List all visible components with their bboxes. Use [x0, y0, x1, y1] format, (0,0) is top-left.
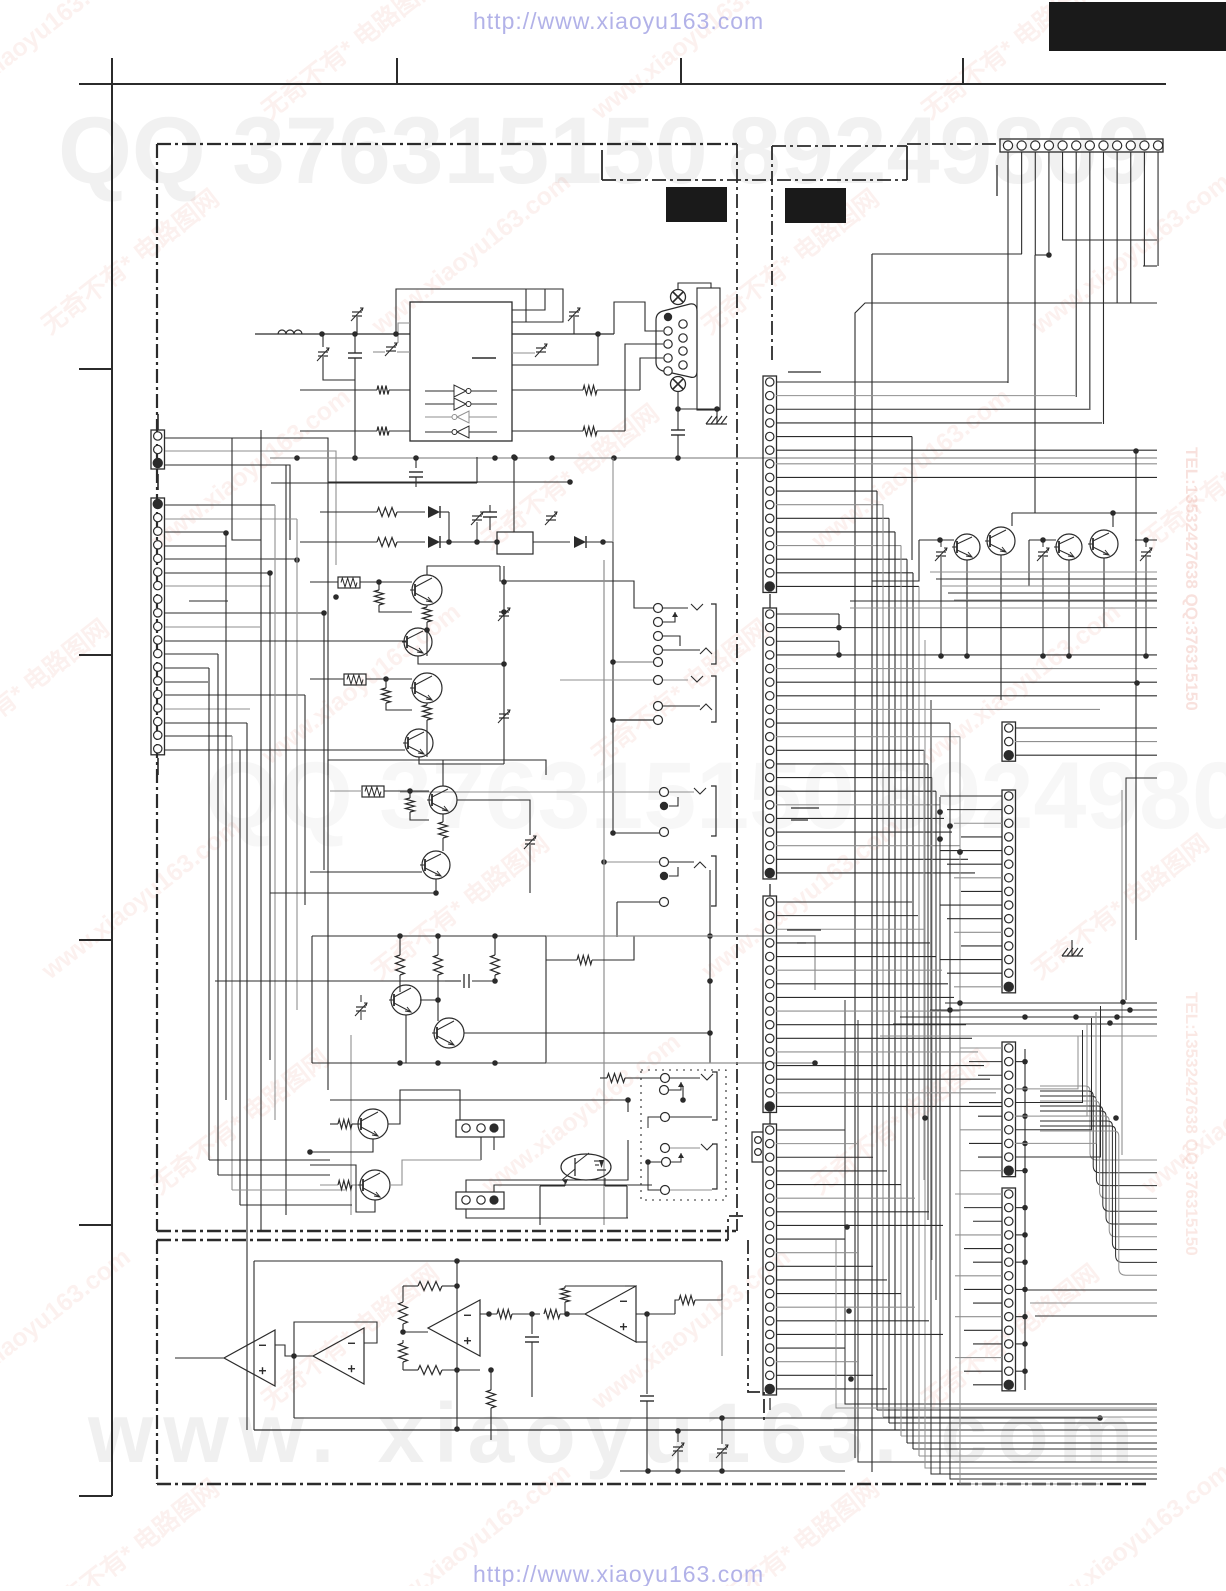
buffer gate B inside U1 (reversed)	[425, 416, 452, 418]
wire diode row 1	[320, 511, 377, 513]
wire CN2 tail	[157, 758, 159, 775]
wire CN-M2 fan left	[940, 795, 1002, 797]
dash-dot bottom box top	[157, 1239, 730, 1242]
wire CN-R S1 vertical bundle	[876, 491, 878, 1410]
dash-dot right inner top edge	[602, 179, 907, 181]
dash-dot right box vertical at 772	[771, 146, 773, 363]
wire R25 join dot	[488, 1367, 494, 1373]
dash-dot left box left edge	[156, 144, 158, 1231]
connector CN5 bracket pins	[755, 1137, 762, 1144]
wire Q5 emitter chain	[442, 814, 444, 822]
resistor R17	[320, 1184, 338, 1186]
DB9 mounting bracket	[697, 288, 720, 410]
transistor Q14	[1090, 530, 1118, 558]
resistor R23	[497, 1310, 512, 1319]
connector CN-M2 15pin	[1002, 790, 1016, 993]
connector CN-R S3-S4 link	[769, 1112, 771, 1124]
resistor R14 vertical	[437, 936, 439, 955]
buffer gate A inside U1	[425, 390, 454, 392]
resistor R22 bottom	[403, 1369, 418, 1371]
wire CN1 pin3	[165, 465, 290, 540]
jack J4 contacts	[661, 1144, 670, 1153]
jack J3 frame bar	[712, 1072, 717, 1120]
transistor Q4	[405, 729, 433, 757]
connector CN-R S1-S2 link	[769, 594, 771, 608]
junction dots near CN2	[223, 530, 229, 536]
resistor R13 vertical	[399, 936, 401, 955]
jack J3 contacts	[661, 1074, 670, 1083]
wire mid fan lower exits	[1025, 1289, 1157, 1291]
wire feed x628 x683 verticals	[627, 1100, 629, 1112]
wire Q9 collector to CN3	[388, 1090, 460, 1124]
wire K1 output	[533, 541, 570, 543]
transistor Q8	[434, 1018, 464, 1048]
dash-dot bottom box corner notch	[728, 1216, 744, 1240]
capacitor C6	[646, 1314, 648, 1394]
op-amp U4A	[428, 1300, 480, 1356]
junction dots CN-R S4	[844, 1224, 850, 1230]
wire cluster frame top y936	[312, 935, 546, 937]
wire bus verticals left column	[208, 668, 210, 1160]
resistor R16	[330, 1123, 338, 1125]
wire R26 top loop	[565, 1285, 625, 1287]
op-amp U4B	[585, 1286, 636, 1342]
wire inner loop left of U1	[398, 323, 410, 343]
wire R5 to Q1	[310, 581, 338, 583]
jack J4 levers	[670, 1147, 700, 1149]
resistor R27	[679, 1296, 695, 1305]
wire Q5 collector top	[442, 760, 444, 786]
wire y778 from x1126	[1126, 778, 1157, 1000]
black box label 1	[666, 187, 727, 222]
wire bus y458	[270, 457, 1157, 459]
wire rail y334 right of U1	[512, 333, 614, 335]
wire TG bases	[919, 539, 954, 541]
wire CN-R S2 pin1/3 corners	[838, 614, 840, 628]
trimmer capacitor CT16	[472, 515, 482, 517]
jack J1 contacts	[654, 604, 663, 613]
wire jack J6 feeds	[604, 861, 659, 863]
connector CN-R S4 side bracket	[752, 1132, 763, 1162]
transistor Q13	[1056, 534, 1082, 560]
wire left loop op-amp chain	[253, 1261, 255, 1430]
wire jack J2 sleeve	[613, 719, 653, 721]
trimmer capacitor CT5	[569, 311, 579, 313]
connector CN-T top header	[1000, 139, 1163, 152]
wire CN-T branch y266 right	[1143, 265, 1157, 267]
transistor Q1	[412, 575, 442, 605]
node dots on rail y334	[319, 331, 325, 337]
wire right loop of U1	[512, 289, 563, 322]
svg-text:http://www.xiaoyu163.com: http://www.xiaoyu163.com	[473, 8, 764, 34]
wire bottom y1471	[620, 1470, 845, 1472]
wire U4B output	[636, 1313, 675, 1315]
wire TG base Q13	[1029, 539, 1056, 541]
dash-dot tick vertical 602	[601, 150, 603, 180]
jack J5 contacts	[660, 788, 669, 797]
dash-dot bottom box bottom edge	[157, 1483, 1150, 1486]
wire inner loop right of U1	[512, 289, 545, 310]
wire CN1 pin2	[165, 451, 336, 565]
trimmer capacitor CT13	[1038, 551, 1048, 553]
wire CN-T branch y254 left	[872, 253, 1022, 255]
connector CN3 3pin horizontal	[456, 1120, 504, 1137]
wire CN2 pin fan	[165, 504, 275, 506]
wire y936 extension right	[546, 936, 815, 990]
wire CN-T pins 9,10 into y303 bus	[1115, 302, 1117, 304]
wire Q2 base from CN2 pin11	[165, 640, 404, 642]
trimmer capacitor CT3	[386, 346, 396, 348]
resistor R3 row y390 right	[512, 389, 583, 391]
trimmer capacitor CT9	[356, 1006, 366, 1008]
trimmer capacitor CT11	[717, 1448, 727, 1450]
DB9 screw bottom	[671, 377, 686, 392]
wire CN4 feed	[466, 1209, 628, 1218]
dash-dot left box bottom	[157, 1230, 736, 1233]
frame left vertical rule	[111, 58, 113, 1496]
vertical feed x504	[503, 566, 505, 764]
jack J4 frame bar	[712, 1144, 717, 1189]
connector CN-R S2-S3 link	[769, 884, 771, 896]
wire jack J1 sleeve	[613, 661, 653, 663]
wire bundle x925 x931	[925, 640, 1157, 1468]
wire vertical x855 long	[854, 318, 856, 1458]
wire diode row 2	[300, 541, 377, 543]
trimmer capacitor CT8	[525, 839, 535, 841]
wire vertical x613	[612, 458, 614, 542]
wire right staircase band y570-600	[930, 571, 1157, 573]
jack J4 left rail	[648, 1162, 661, 1190]
trimmer capacitor CT6	[499, 611, 509, 613]
wire CN-M vertical x1025	[1024, 1049, 1026, 1390]
wire Q1 collector top	[427, 566, 500, 575]
resistor R11 box	[362, 786, 384, 797]
wire CN-R S3 fan	[776, 901, 912, 903]
resistor R28	[546, 959, 577, 961]
trimmer capacitor CT2	[318, 351, 328, 353]
black box label 2	[785, 188, 846, 223]
wire audio bus y1418	[294, 1417, 1100, 1419]
wire U4A feedback vertical	[456, 1261, 458, 1429]
frame tick marks left	[79, 368, 112, 370]
frame tick marks top	[396, 58, 398, 84]
wire CN-T pin12 branch	[1156, 239, 1157, 241]
wire CN3 links	[459, 1112, 461, 1120]
op-amp U3B	[313, 1328, 364, 1384]
svg-text:TEL:13532427638 QQ:376315150: TEL:13532427638 QQ:376315150	[1182, 992, 1201, 1256]
resistor R4 row y431 right	[512, 430, 583, 432]
connector CN-R segment S1	[763, 376, 777, 592]
wire J4 sleeve	[670, 1189, 712, 1191]
wire CN1 pin1	[165, 438, 328, 482]
trimmer capacitor CT4	[536, 347, 546, 349]
connector CN-R segment S4	[763, 1124, 777, 1395]
DB9 pins right column	[679, 320, 687, 328]
wire top right x872 riser	[871, 254, 873, 310]
capacitor C4 horizontal	[445, 980, 461, 982]
wire CN-R S4 fan	[776, 1129, 845, 1131]
connector CN-M4 15pin	[1002, 1188, 1016, 1391]
wire vertical x604 gray	[603, 560, 605, 1225]
wire Q4 emitter	[419, 757, 504, 764]
wire Q6 emitter down	[435, 879, 437, 893]
resistor R12 vertical	[409, 791, 411, 798]
wire CN-R S2 pin9/10 vertical drops	[950, 723, 1157, 1479]
wire CN-R S3 stub labels	[787, 929, 821, 931]
wire U3B output to U3A inputs	[275, 1345, 294, 1356]
wire y490 box	[232, 438, 261, 540]
wire DB9 top to bracket	[678, 283, 711, 289]
transistor Q9	[358, 1109, 388, 1139]
resistor R5 box	[338, 577, 360, 588]
wire staircase to lower section	[209, 1159, 330, 1161]
resistor R24	[544, 1310, 560, 1319]
connector CN1 3pin	[151, 430, 165, 469]
wire CN-R S1 fan	[776, 381, 1008, 383]
capacitor C2 below DB9	[677, 409, 679, 430]
capacitor C7	[489, 505, 491, 512]
wire Q7 emitter	[405, 1015, 407, 1063]
wire CN-M3 riser bundle	[1015, 1036, 1078, 1089]
wire right column x722	[721, 1261, 723, 1300]
wire CN4 top feeds	[466, 1140, 628, 1192]
wire DB9 pin wires	[640, 358, 663, 390]
jack J1 levers	[663, 607, 688, 609]
connector CN-DB9 shell	[656, 304, 697, 378]
trimmer capacitor CT14	[1141, 551, 1151, 553]
jack J6 levers	[669, 861, 694, 863]
wire vertical x1035 to transistor feed	[1034, 255, 1036, 513]
wire jack feed y680	[560, 679, 653, 681]
wire top loop over U1	[396, 289, 526, 334]
DB9 screw top	[671, 290, 686, 305]
diode D1	[428, 506, 440, 518]
jack J2 contacts	[654, 676, 663, 685]
wire TG feed y513	[1012, 512, 1157, 514]
junction dot y451	[1133, 448, 1139, 454]
wire R8 to Q3	[310, 678, 344, 680]
DB9 pin 1 filled	[664, 313, 672, 321]
wire DB9 bottom ground	[677, 392, 679, 409]
wire CN-M3 stubs	[960, 1047, 1002, 1049]
resistor R7 below Q1	[426, 605, 428, 607]
wire stub below connector left	[996, 165, 998, 196]
wire CN-T pin3-4 tie y255	[1035, 254, 1049, 256]
wire cluster frame bottom y1063	[312, 1062, 546, 1064]
resistor R18	[600, 1077, 607, 1079]
resistor R8 box	[344, 674, 366, 685]
trimmer capacitor CT17	[546, 515, 556, 517]
wire right buses y1003-1036	[945, 1002, 1157, 1004]
trimmer capacitor CT1	[352, 311, 362, 313]
wire U4B plus input down	[636, 1341, 647, 1343]
black box top-right	[1049, 2, 1226, 51]
wire CN-R S2 stub labels	[791, 807, 819, 809]
wire U4A output node	[480, 1313, 497, 1315]
wire Q6 base	[310, 871, 422, 873]
frame top horizontal rule	[79, 83, 1166, 85]
jack J6 frame bar	[711, 856, 716, 906]
wire audio out bus y1430	[254, 1429, 905, 1431]
junction dot CN-T pin4	[1046, 252, 1052, 258]
capacitor C3 below bus	[415, 458, 417, 468]
wire D1 corner down	[448, 512, 450, 542]
wire Q1 collector to jack J1	[500, 566, 653, 608]
transistor Q7	[391, 985, 421, 1015]
resistor R1 row y390 left	[300, 389, 377, 391]
resistor R21 vertical	[402, 1340, 404, 1343]
jack J2 frame bar	[711, 676, 716, 722]
ground chassis near DB9	[706, 416, 712, 424]
wire vertical x872 long	[871, 254, 873, 1472]
wire U3A apex left	[175, 1357, 224, 1359]
IC U1 RS232 driver box	[410, 302, 512, 441]
wire y601 y608	[850, 600, 1157, 602]
op-amp U3A	[224, 1330, 275, 1386]
relay box K1	[497, 532, 533, 554]
DB9 pins left column	[664, 327, 672, 335]
wire K1 top feed	[513, 457, 515, 532]
transistor Q5	[429, 786, 457, 814]
capacitor C1	[348, 352, 362, 354]
wire base rail y981	[215, 980, 445, 982]
wire CN1 tails	[157, 414, 159, 430]
connector CN-R S4 tail	[769, 1398, 771, 1410]
transistor Q3	[412, 673, 442, 703]
wire CN-R S2 pin11-14 drops	[923, 750, 925, 1180]
transistor Q11	[954, 534, 980, 560]
dash-dot bottom box right edge	[748, 1240, 764, 1424]
junction dots CN-M2	[937, 809, 943, 815]
wire main rail y334 left	[255, 333, 410, 335]
wire CN-R S2 fan	[776, 613, 839, 615]
wire x613 to bus	[612, 566, 614, 581]
connector CN-M3 10pin	[1002, 1042, 1016, 1177]
wire TG collectors up	[1011, 513, 1013, 526]
trimmer capacitor CT12	[936, 551, 946, 553]
transistor Q10	[360, 1170, 390, 1200]
resistor R6 vertical	[378, 582, 380, 590]
wire CN-M4 stubs	[955, 1193, 1002, 1195]
dash-dot right box top left part	[772, 145, 907, 147]
wire Q10 collector	[390, 1160, 481, 1185]
dash-dot left box right edge	[736, 144, 738, 1231]
wire TG verticals down to y655	[966, 560, 968, 655]
wire y482	[328, 481, 570, 483]
transistor Q2	[404, 628, 432, 656]
svg-text:http://www.xiaoyu163.com: http://www.xiaoyu163.com	[473, 1561, 764, 1586]
optocoupler U2	[561, 1154, 611, 1180]
wire CN-T pin drops	[1007, 152, 1009, 383]
wire cluster frame sides	[311, 936, 313, 1063]
trimmer capacitor CT10	[673, 1446, 683, 1448]
wire J3 pin3 to bar	[670, 1116, 712, 1118]
resistor R10 below Q3	[426, 703, 428, 705]
jack J2 levers	[663, 679, 688, 681]
wire Q2 emitter join	[418, 656, 504, 664]
wire y303 bus with jog	[855, 303, 1157, 318]
wire Q10 emitter	[310, 1165, 375, 1212]
dash-dot right top to connector	[907, 143, 1000, 145]
resistor R19 top	[403, 1285, 418, 1287]
wire y1063 extension right	[546, 1062, 815, 1064]
connector CN2 19pin	[151, 498, 165, 755]
wire feed top	[330, 1099, 628, 1101]
jack J5 levers	[669, 791, 694, 793]
wire U4A input links	[403, 1331, 428, 1333]
wire jack J5 feeds	[400, 791, 659, 793]
IC U1 label line	[472, 357, 496, 359]
wire y483	[271, 482, 477, 484]
wire bundle x845 x858	[845, 1000, 1157, 1404]
resistor R20 vertical	[402, 1286, 404, 1302]
junction dots on y458	[294, 455, 300, 461]
connector CN-R segment S3	[763, 896, 777, 1112]
dash-dot right inner vertical 907	[906, 146, 908, 180]
wire bundle x940 vertical	[939, 797, 941, 1474]
junction dots CN-R S2	[836, 625, 842, 631]
jack J6 contacts	[660, 858, 669, 867]
wire Q8 collector right	[464, 1032, 710, 1034]
wire U3B plus join	[294, 1355, 313, 1357]
wire vertical x1122	[1121, 790, 1123, 1155]
dotted select box	[641, 1070, 726, 1200]
wire CN-T branch y240 right	[1062, 239, 1157, 241]
resistor R9 vertical	[385, 679, 387, 688]
wire CN-M1 fan	[1015, 727, 1157, 729]
wire Q4 base	[165, 749, 405, 751]
wire R11 to Q5	[330, 790, 362, 792]
connector CN-M1 3pin	[1002, 722, 1016, 761]
transistor Q6	[422, 851, 450, 879]
svg-text:TEL:13532427638 QQ:376315150: TEL:13532427638 QQ:376315150	[1182, 447, 1201, 711]
wire Q9 emitter	[310, 1139, 373, 1152]
connector CN-R label line	[788, 371, 821, 373]
wire right vertical x710	[709, 870, 711, 1063]
wire U3B loop box	[294, 1322, 377, 1418]
transistor Q12	[987, 527, 1015, 555]
wire vertical x1136 lower	[1135, 683, 1137, 940]
wire U1 right side frame	[512, 334, 598, 365]
connector CN4 3pin horizontal	[456, 1192, 504, 1209]
wire TG emitter bus dots y655	[938, 653, 944, 659]
junction dots right buses	[957, 1000, 963, 1006]
wire frame box upper	[328, 760, 546, 775]
inductor L1	[278, 330, 302, 334]
wire optocoupler leads	[540, 1185, 565, 1187]
diode D2	[428, 536, 440, 548]
jack J1 frame bar	[711, 604, 716, 664]
wire CN-R S1 pin5 drop	[911, 437, 913, 560]
wire right link to jacks	[457, 800, 530, 820]
wire CN2 pin8 stub	[189, 600, 228, 602]
connector CN-R segment S2	[763, 608, 777, 879]
resistor R15 vertical	[494, 936, 496, 955]
resistor R2 row y431 left	[300, 430, 377, 432]
diode D3	[574, 536, 586, 548]
wire x1136 vertical	[1135, 451, 1137, 683]
ground chassis right	[1062, 948, 1068, 956]
wire mid fan to right edge	[1040, 1086, 1157, 1160]
resistor R25 vertical	[490, 1370, 492, 1390]
capacitor C5	[531, 1314, 533, 1334]
resistor R26 vertical	[564, 1286, 566, 1288]
jack J3 levers	[670, 1077, 700, 1079]
dash-dot bottom box left edge	[156, 1240, 158, 1484]
wire top rail y1261	[254, 1260, 722, 1262]
junction dots diode row	[474, 539, 480, 545]
trimmer capacitor CT7	[499, 713, 509, 715]
